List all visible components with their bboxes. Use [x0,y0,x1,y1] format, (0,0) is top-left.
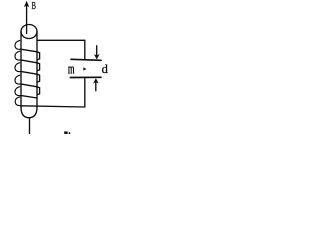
capacitor top plate [71,59,101,60]
coil turn 4 front wire [21,84,37,87]
coil turn 6 left hook [15,97,21,106]
wire: top corner drop [84,40,86,59]
solenoid left edge [20,32,22,108]
coil turn 2 front wire [21,60,37,63]
solenoid bottom arc [21,107,37,118]
B field arrow [25,2,29,34]
wire: coil top to capacitor [37,39,85,41]
label m [68,67,74,73]
coil turn 2 right hook [37,63,40,71]
bottom edge cropped text marks [64,131,67,134]
solenoid L1 top ellipse [21,25,37,39]
svg-text:d: d [102,62,109,76]
dimension arrow down (d, above top plate) [94,46,99,59]
coil turn 4 right hook [37,87,40,95]
coil turn 1 left hook [15,40,21,49]
coil turn 1 right hook [37,52,40,60]
capacitor bottom plate [70,76,101,78]
solenoid right edge [36,32,38,108]
wire: plate vertical riser bottom [84,78,86,108]
solenoid bottom lead wire [29,118,31,134]
wire: coil bottom to plate N2 [21,106,84,107]
coil turn 1 front wire [21,49,37,52]
coil turn 3 right hook [37,74,40,82]
svg-text:B: B [31,1,36,12]
pointer triangle next to m [83,67,86,70]
coil turn 3 front wire [21,72,37,75]
dimension arrow up (d, below bottom plate) [94,79,99,91]
coil turn 3 left hook [15,63,21,72]
coil turn 5 left hook [15,87,21,96]
coil turn 5 front wire [21,96,37,98]
coil turn 2 left hook [15,51,21,60]
coil turn 4 left hook [15,75,21,84]
